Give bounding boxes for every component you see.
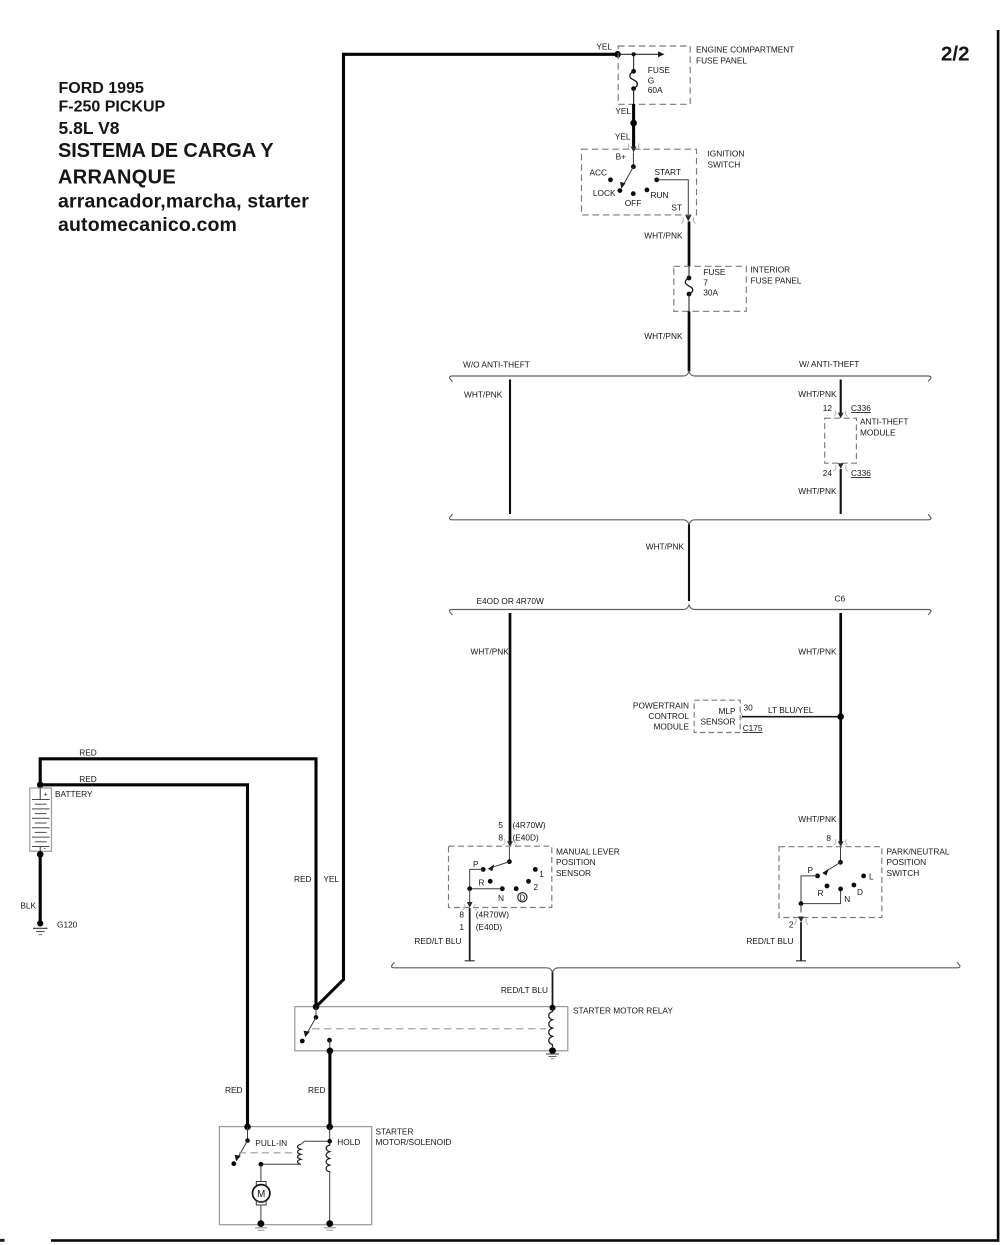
motor ground node <box>258 1220 265 1227</box>
svg-text:N: N <box>498 893 504 903</box>
title block <box>58 80 309 236</box>
svg-text:MODULE: MODULE <box>860 428 896 438</box>
svg-text:SENSOR: SENSOR <box>700 717 735 727</box>
svg-text:C336: C336 <box>851 403 871 413</box>
bus 2 (merge) <box>450 514 932 524</box>
relay actuating dashed link <box>312 1028 546 1030</box>
wire RED/LT BLU bus 4 to relay coil <box>552 972 554 1007</box>
svg-text:POSITION: POSITION <box>556 857 596 867</box>
svg-text:FUSE PANEL: FUSE PANEL <box>751 276 802 286</box>
svg-text:D: D <box>857 887 863 897</box>
svg-text:P: P <box>807 865 813 875</box>
fuse 7 30A <box>685 266 693 311</box>
battery negative node <box>37 851 44 858</box>
svg-text:ENGINE COMPARTMENT: ENGINE COMPARTMENT <box>696 45 794 55</box>
contact P and selected-path wiring <box>467 867 504 903</box>
svg-text:arrancador,marcha, starter: arrancador,marcha, starter <box>58 191 309 213</box>
solenoid pull-in input node <box>244 1124 251 1131</box>
svg-text:SISTEMA DE CARGA Y: SISTEMA DE CARGA Y <box>58 140 274 162</box>
wire BLK battery to ground <box>39 854 42 923</box>
svg-text:FORD 1995: FORD 1995 <box>59 80 144 97</box>
svg-text:automecanico.com: automecanico.com <box>58 214 237 236</box>
relay coil <box>549 1005 556 1054</box>
svg-text:ST: ST <box>671 203 682 213</box>
hold coil <box>326 1141 330 1223</box>
svg-text:START: START <box>655 167 681 177</box>
svg-text:R: R <box>479 878 485 888</box>
svg-text:(4R70W): (4R70W) <box>513 820 546 830</box>
svg-text:WHT/PNK: WHT/PNK <box>644 230 683 240</box>
svg-text:C336: C336 <box>851 468 871 478</box>
relay input node <box>313 1004 320 1011</box>
MLP sensor exit arrow <box>463 902 477 910</box>
svg-text:MLP: MLP <box>718 706 736 716</box>
svg-text:WHT/PNK: WHT/PNK <box>798 486 837 496</box>
svg-text:W/ ANTI-THEFT: W/ ANTI-THEFT <box>799 359 859 369</box>
solenoid actuating dashed link <box>239 1152 295 1154</box>
svg-text:C175: C175 <box>743 723 763 733</box>
interior fuse panel box <box>674 266 747 311</box>
svg-text:WHT/PNK: WHT/PNK <box>798 389 837 399</box>
svg-text:N: N <box>844 894 850 904</box>
page border bottom <box>51 1239 999 1242</box>
ignition switch box <box>582 149 697 215</box>
relay output contact <box>327 1038 334 1054</box>
svg-text:SWITCH: SWITCH <box>708 160 741 170</box>
svg-text:YEL: YEL <box>615 132 631 142</box>
hold coil ground node <box>326 1220 333 1227</box>
svg-text:STARTER: STARTER <box>376 1127 414 1137</box>
svg-text:C6: C6 <box>835 594 846 604</box>
node pull-in to motor <box>259 1162 264 1167</box>
svg-text:12: 12 <box>823 403 833 413</box>
wire WHT/PNK to anti-theft module <box>840 380 842 414</box>
svg-text:W/O ANTI-THEFT: W/O ANTI-THEFT <box>463 360 530 370</box>
svg-text:YEL: YEL <box>596 42 612 52</box>
wire START to ST terminal <box>657 180 689 215</box>
park/neutral switch entry arrow <box>834 839 848 847</box>
svg-text:FUSE: FUSE <box>648 65 671 75</box>
svg-text:2: 2 <box>789 920 794 930</box>
svg-text:WHT/PNK: WHT/PNK <box>798 814 837 824</box>
svg-text:PULL-IN: PULL-IN <box>255 1138 287 1148</box>
svg-text:WHT/PNK: WHT/PNK <box>798 647 837 657</box>
svg-text:R: R <box>818 888 824 898</box>
svg-text:CONTROL: CONTROL <box>648 711 689 721</box>
contact R <box>825 884 830 889</box>
contact L <box>861 874 866 879</box>
svg-text:(E40D): (E40D) <box>476 922 503 932</box>
wire YEL battery feed (top horizontal + long vertical + kink to relay) <box>316 54 618 1007</box>
svg-text:YEL: YEL <box>323 874 339 884</box>
svg-text:60A: 60A <box>648 85 663 95</box>
junction node at fuse panel input <box>614 51 621 58</box>
contact START <box>654 177 659 182</box>
svg-text:STARTER MOTOR RELAY: STARTER MOTOR RELAY <box>573 1005 673 1015</box>
svg-text:RED: RED <box>225 1085 243 1095</box>
contact 1 <box>533 867 538 872</box>
wire end T-bar at bus 4 (left) <box>465 960 475 962</box>
svg-text:RED: RED <box>79 774 97 784</box>
svg-text:B+: B+ <box>616 152 627 162</box>
MLP sensor rotor arm <box>488 847 512 871</box>
wire RED/LT BLU sensor to bus 4 <box>469 908 471 961</box>
svg-text:24: 24 <box>823 468 833 478</box>
wire WHT/PNK bus3 to park/neutral switch <box>839 613 842 842</box>
svg-text:8: 8 <box>498 833 503 843</box>
svg-text:E4OD OR 4R70W: E4OD OR 4R70W <box>477 596 544 606</box>
wire RED battery to relay <box>40 759 316 1007</box>
svg-text:POSITION: POSITION <box>887 857 927 867</box>
wire WHT/PNK interior fuse panel to bus 1 <box>688 311 691 371</box>
svg-text:(4R70W): (4R70W) <box>476 910 509 920</box>
park/neutral switch exit arrow <box>794 917 808 925</box>
manual lever position sensor box <box>449 846 552 907</box>
svg-text:M: M <box>257 1189 265 1200</box>
svg-text:RED/LT BLU: RED/LT BLU <box>414 936 461 946</box>
svg-text:MOTOR/SOLENOID: MOTOR/SOLENOID <box>376 1137 452 1147</box>
svg-text:RED/LT BLU: RED/LT BLU <box>501 985 548 995</box>
junction node LT BLU/YEL <box>837 713 844 720</box>
svg-text:8: 8 <box>459 910 464 920</box>
bus 1 (W/O vs W/ anti-theft options) <box>450 372 932 382</box>
svg-text:HOLD: HOLD <box>337 1137 360 1147</box>
svg-text:+: + <box>44 792 48 799</box>
svg-text:L: L <box>869 871 874 881</box>
svg-text:FUSE: FUSE <box>703 267 726 277</box>
svg-text:1: 1 <box>459 922 464 932</box>
svg-text:5: 5 <box>498 820 503 830</box>
svg-text:2: 2 <box>533 882 538 892</box>
anti-theft module exit arrow <box>834 463 848 471</box>
svg-text:WHT/PNK: WHT/PNK <box>471 647 510 657</box>
svg-text:LT BLU/YEL: LT BLU/YEL <box>768 705 814 715</box>
contact 2 <box>526 879 531 884</box>
battery positive node <box>37 782 44 789</box>
svg-text:ARRANQUE: ARRANQUE <box>58 166 176 188</box>
pull-in coil <box>261 1141 330 1164</box>
wire YEL fuse panel to ignition switch <box>632 104 635 147</box>
svg-text:RED/LT BLU: RED/LT BLU <box>746 936 793 946</box>
motor M <box>253 1164 270 1223</box>
svg-text:30: 30 <box>744 703 754 713</box>
svg-text:RUN: RUN <box>651 190 669 200</box>
svg-text:2/2: 2/2 <box>941 43 970 66</box>
contact RUN <box>645 188 650 193</box>
contact D with circle <box>514 886 519 891</box>
bus 3 (transmission options) <box>450 605 932 615</box>
ignition switch rotor arm <box>620 153 636 189</box>
contact ACC <box>608 177 613 182</box>
contact LOCK <box>618 188 623 193</box>
ground G120 <box>33 920 48 934</box>
svg-text:1: 1 <box>539 869 544 879</box>
svg-text:ACC: ACC <box>589 168 607 178</box>
contact P and selected-path wiring <box>799 874 843 913</box>
wire feed branch with arrow (inside fuse panel) <box>618 51 665 71</box>
svg-text:MANUAL LEVER: MANUAL LEVER <box>556 847 620 857</box>
ignition switch exit arrow ST <box>681 216 695 224</box>
svg-text:RED: RED <box>294 874 312 884</box>
wire WHT/PNK bus3 to MLP sensor <box>509 613 512 842</box>
relay coil ground <box>546 1054 559 1059</box>
svg-text:WHT/PNK: WHT/PNK <box>464 390 503 400</box>
svg-text:YEL: YEL <box>615 106 631 116</box>
solenoid hold input node <box>326 1124 333 1144</box>
svg-text:F-250 PICKUP: F-250 PICKUP <box>59 99 166 116</box>
svg-text:LOCK: LOCK <box>593 188 616 198</box>
svg-text:WHT/PNK: WHT/PNK <box>644 331 683 341</box>
svg-text:G120: G120 <box>57 920 78 930</box>
fuse G 60A <box>630 69 638 104</box>
wire RED relay to starter solenoid <box>328 1051 331 1127</box>
svg-text:SENSOR: SENSOR <box>556 868 591 878</box>
relay stationary contact <box>300 1039 305 1044</box>
contact OFF <box>631 191 636 196</box>
engine compartment fuse panel box <box>618 46 690 104</box>
junction node <box>630 120 637 127</box>
PCM exit curl <box>740 713 742 721</box>
motor ground hatch <box>255 1228 267 1230</box>
bus 4 (collector to starter relay) <box>392 962 961 972</box>
svg-text:D: D <box>520 893 526 902</box>
relay armature contact arm <box>304 1007 319 1037</box>
contact R <box>488 879 493 884</box>
contact D <box>852 883 857 888</box>
park/neutral position switch box <box>779 847 882 918</box>
wire WHT/PNK w/o anti-theft branch (bus1 to bus2) <box>509 380 511 515</box>
PCM MLP sensor box <box>694 700 740 732</box>
hold ground hatch <box>324 1228 336 1230</box>
battery B1 <box>30 788 52 854</box>
svg-text:RED: RED <box>308 1085 326 1095</box>
ignition switch entry arrow B+ <box>627 144 641 153</box>
wire WHT/PNK bus2 to bus3 <box>688 524 690 601</box>
wire LT BLU/YEL PCM to WHT/PNK junction <box>742 716 841 718</box>
anti-theft module entry arrow <box>834 411 848 419</box>
svg-text:ANTI-THEFT: ANTI-THEFT <box>860 417 908 427</box>
svg-text:MODULE: MODULE <box>654 722 690 732</box>
svg-text:INTERIOR: INTERIOR <box>751 265 791 275</box>
svg-text:WHT/PNK: WHT/PNK <box>646 542 685 552</box>
svg-text:FUSE PANEL: FUSE PANEL <box>696 56 747 66</box>
svg-text:8: 8 <box>826 833 831 843</box>
wire RED/LT BLU switch to bus 4 <box>800 922 802 961</box>
wire WHT/PNK module to bus 2 <box>840 469 842 514</box>
wire RED battery to starter solenoid <box>40 785 247 1127</box>
park/neutral switch rotor arm <box>822 847 843 876</box>
page border right <box>997 30 1000 1242</box>
wire WHT/PNK ignition to interior fuse panel <box>688 222 691 267</box>
svg-text:5.8L V8: 5.8L V8 <box>59 118 120 138</box>
anti-theft module box <box>825 418 857 463</box>
svg-text:BLK: BLK <box>20 901 36 911</box>
svg-text:30A: 30A <box>703 288 718 298</box>
svg-text:PARK/NEUTRAL: PARK/NEUTRAL <box>887 847 950 857</box>
svg-text:RED: RED <box>79 748 97 758</box>
svg-text:OFF: OFF <box>625 198 642 208</box>
svg-text:7: 7 <box>703 277 708 287</box>
starter motor relay box <box>295 1007 568 1051</box>
page border bottom-left stub <box>0 1239 5 1242</box>
svg-text:P: P <box>473 859 479 869</box>
svg-text:SWITCH: SWITCH <box>887 868 920 878</box>
svg-text:POWERTRAIN: POWERTRAIN <box>633 700 689 710</box>
wire end T-bar at bus 4 (right) <box>796 960 806 962</box>
solenoid switch arm <box>231 1127 249 1166</box>
svg-text:BATTERY: BATTERY <box>55 789 93 799</box>
svg-text:(E40D): (E40D) <box>513 833 540 843</box>
svg-text:IGNITION: IGNITION <box>708 149 745 159</box>
MLP sensor entry arrow <box>503 839 517 847</box>
starter motor/solenoid box <box>219 1127 371 1225</box>
